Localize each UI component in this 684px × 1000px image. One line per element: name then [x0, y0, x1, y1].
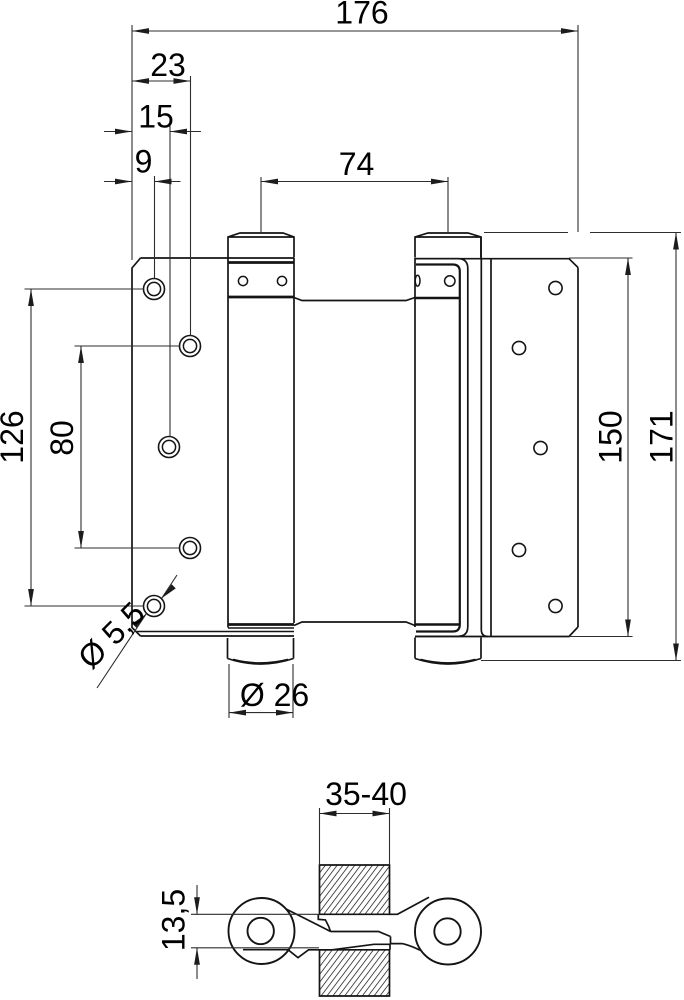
svg-text:15: 15	[138, 99, 174, 135]
right plate fold line	[481, 259, 488, 637]
arrow 9 right (outside)	[155, 179, 172, 185]
left plate hole 5 outer	[144, 596, 165, 617]
ext line y=258 (150 top)	[569, 257, 633, 259]
right plate hole 1	[549, 281, 562, 294]
arrow 126 bottom	[28, 589, 34, 606]
strap step at upper block tab	[318, 914, 330, 931]
leader line dia 5.5	[97, 575, 177, 688]
ext line x=170 (15)	[169, 126, 171, 437]
arrow 35-40 right	[373, 811, 390, 817]
arrow 15 left (outside)	[115, 129, 132, 135]
left plate outline	[132, 258, 141, 636]
arrow 176 left	[132, 28, 149, 34]
arrow dia5.5 lower (pointing up-right)	[132, 614, 146, 628]
left plate / cap-bottom top edge line	[141, 257, 295, 259]
left bottom cap	[228, 638, 294, 664]
arrow 23 left	[132, 78, 149, 84]
arrow 9 left (outside)	[115, 179, 132, 185]
left plate hole 4 outer	[180, 538, 201, 559]
dim line 9 (outside)	[104, 181, 181, 183]
svg-text:Ø 26: Ø 26	[240, 677, 309, 713]
dim line 171	[675, 233, 677, 661]
right plate hole 2	[512, 341, 525, 354]
ext line y=914.3 (13,5 top)	[191, 913, 320, 915]
arrow 176 right	[561, 28, 578, 34]
dim line 13,5 upper segment	[196, 885, 198, 914]
left barrel left edge	[227, 258, 229, 628]
ext line x=578 (plate right edge)	[577, 25, 579, 232]
ext line x=132 (plate left edge)	[131, 25, 133, 260]
ext line y=636.5 (150 bottom)	[569, 636, 633, 638]
arrow 126 top	[28, 289, 34, 306]
dim line 13,5 lower segment	[196, 948, 198, 979]
strap right-arm underside to circle	[403, 944, 421, 951]
left plate hole 2 inner	[183, 339, 196, 352]
left plate hole 3 outer	[159, 437, 180, 458]
strap left-arm bottom edge with notch	[243, 944, 390, 957]
left plate hole 4 inner	[183, 541, 196, 554]
arrow 150 bottom	[625, 620, 631, 637]
strap left-arm top edge	[286, 909, 331, 932]
arrow dia26 right	[276, 710, 293, 716]
svg-text:35-40: 35-40	[325, 776, 407, 812]
ext line x=293 (dia 26 right)	[292, 664, 294, 718]
lower door block (hatched)	[320, 950, 390, 996]
dim line 35-40	[320, 813, 390, 815]
left plate hole 2 outer	[180, 336, 201, 357]
arrow 13,5 top (down)	[194, 897, 200, 914]
right plate hole 3	[534, 441, 547, 454]
arrowheads main view	[28, 28, 679, 715]
dim line dia 26	[229, 712, 293, 714]
right sleeve inner outline	[416, 265, 460, 632]
arrow 35-40 left	[320, 811, 337, 817]
left barrel top cap	[228, 233, 294, 258]
arrow 13,5 bottom (up)	[194, 948, 200, 965]
arrow 171 top	[673, 233, 679, 250]
svg-text:176: 176	[335, 0, 388, 31]
arrow dia5.5 upper (pointing down-left)	[162, 584, 176, 598]
dim line 126	[30, 289, 32, 606]
right pin circle	[434, 918, 460, 944]
left knuckle top thick line	[228, 261, 294, 264]
ext line x=190.5 (23)	[190, 76, 192, 336]
arrow 15 right (outside)	[170, 129, 187, 135]
left plate hole 1 outer	[144, 279, 165, 300]
ext line y=947.8 (13,5 bottom)	[191, 947, 319, 949]
left plate hole 1 inner	[147, 282, 160, 295]
right barrel circle	[415, 899, 481, 965]
left plate bottom edge line	[141, 635, 295, 637]
right knuckle screw hole	[445, 276, 455, 286]
right barrel left edge	[414, 258, 416, 627]
left pin circle	[248, 918, 274, 944]
pin centre line right (74)	[447, 177, 449, 233]
svg-text:23: 23	[150, 47, 186, 83]
strap stub to lower block corner	[389, 944, 391, 950]
ext line x=229 (dia 26 left)	[228, 664, 230, 718]
right plate hole 4	[512, 543, 525, 556]
right barrel top cap	[415, 233, 481, 258]
arrow 171 bottom	[673, 644, 679, 661]
svg-text:150: 150	[593, 410, 629, 463]
arrow 74 right	[431, 179, 448, 185]
ext line y=289 (126 top)	[25, 288, 144, 290]
upper door block (hatched)	[320, 865, 390, 914]
dim line 74	[261, 181, 448, 183]
dim line 150	[627, 258, 629, 637]
left barrel circle	[229, 898, 295, 964]
right knuckle bottom thick line	[416, 297, 460, 300]
left barrel bottom line	[228, 627, 294, 629]
left knuckle screw hole B	[277, 276, 286, 285]
left plate hole 5 inner	[147, 599, 160, 612]
ext line y=232.5 (171 top)	[484, 232, 681, 234]
dim line 176	[132, 30, 578, 32]
ext line x=154.5 (9)	[154, 176, 156, 279]
arrow 74 left	[261, 179, 278, 185]
svg-text:74: 74	[339, 146, 375, 182]
left plate hole 3 inner	[162, 440, 175, 453]
arrow dia26 left	[229, 710, 246, 716]
left barrel bottom thick line	[228, 623, 294, 626]
left plate lower fold line	[137, 631, 294, 633]
arrow 80 top	[78, 346, 84, 363]
svg-text:171: 171	[644, 410, 680, 463]
svg-text:80: 80	[44, 420, 80, 456]
right bottom cap	[415, 638, 481, 665]
dim line 80	[80, 346, 82, 548]
strap right-arm top edge	[390, 897, 430, 914]
ext line y=346 (80 top)	[75, 345, 180, 347]
ext line y=606 (126 bottom)	[25, 605, 144, 607]
svg-text:9: 9	[135, 144, 153, 180]
dimension texts main view	[0, 0, 680, 713]
pin centre line left (74)	[260, 177, 262, 233]
left knuckle screw hole A	[238, 276, 247, 285]
arrow 150 top	[625, 258, 631, 275]
left barrel right edge	[293, 258, 295, 623]
ext line x=319.5 (35-40 left)	[319, 808, 321, 864]
ext line y=548 (80 bottom)	[75, 547, 180, 549]
svg-text:126: 126	[0, 410, 30, 463]
bottom view dimensions	[191, 808, 390, 979]
arrow 23 right	[174, 78, 191, 84]
svg-text:13,5: 13,5	[156, 889, 192, 951]
right knuckle screw hole (edge ellipse)	[415, 275, 420, 286]
arrow 80 bottom	[78, 531, 84, 548]
right sleeve outer outline	[415, 259, 468, 637]
middle leaf top edge	[294, 298, 415, 301]
right cap right edge upper	[480, 237, 482, 258]
right plate right edge	[577, 268, 579, 628]
ext line x=389.5 (35-40 right)	[389, 808, 391, 864]
dim line 23	[132, 80, 191, 82]
strap mid boundary line	[331, 932, 391, 937]
strap notch step right	[391, 937, 403, 944]
left knuckle bottom thick line	[228, 296, 294, 299]
right barrel bottom thick line	[416, 623, 460, 626]
dim line 15 (outside)	[104, 131, 201, 133]
right plate left edge	[490, 259, 492, 637]
middle leaf bottom edge	[294, 622, 415, 626]
right plate bottom chamfer	[415, 627, 578, 637]
ext line y=660.5 (171 bottom)	[481, 660, 681, 662]
right plate hole 5	[549, 599, 562, 612]
right plate top edge	[415, 259, 578, 268]
